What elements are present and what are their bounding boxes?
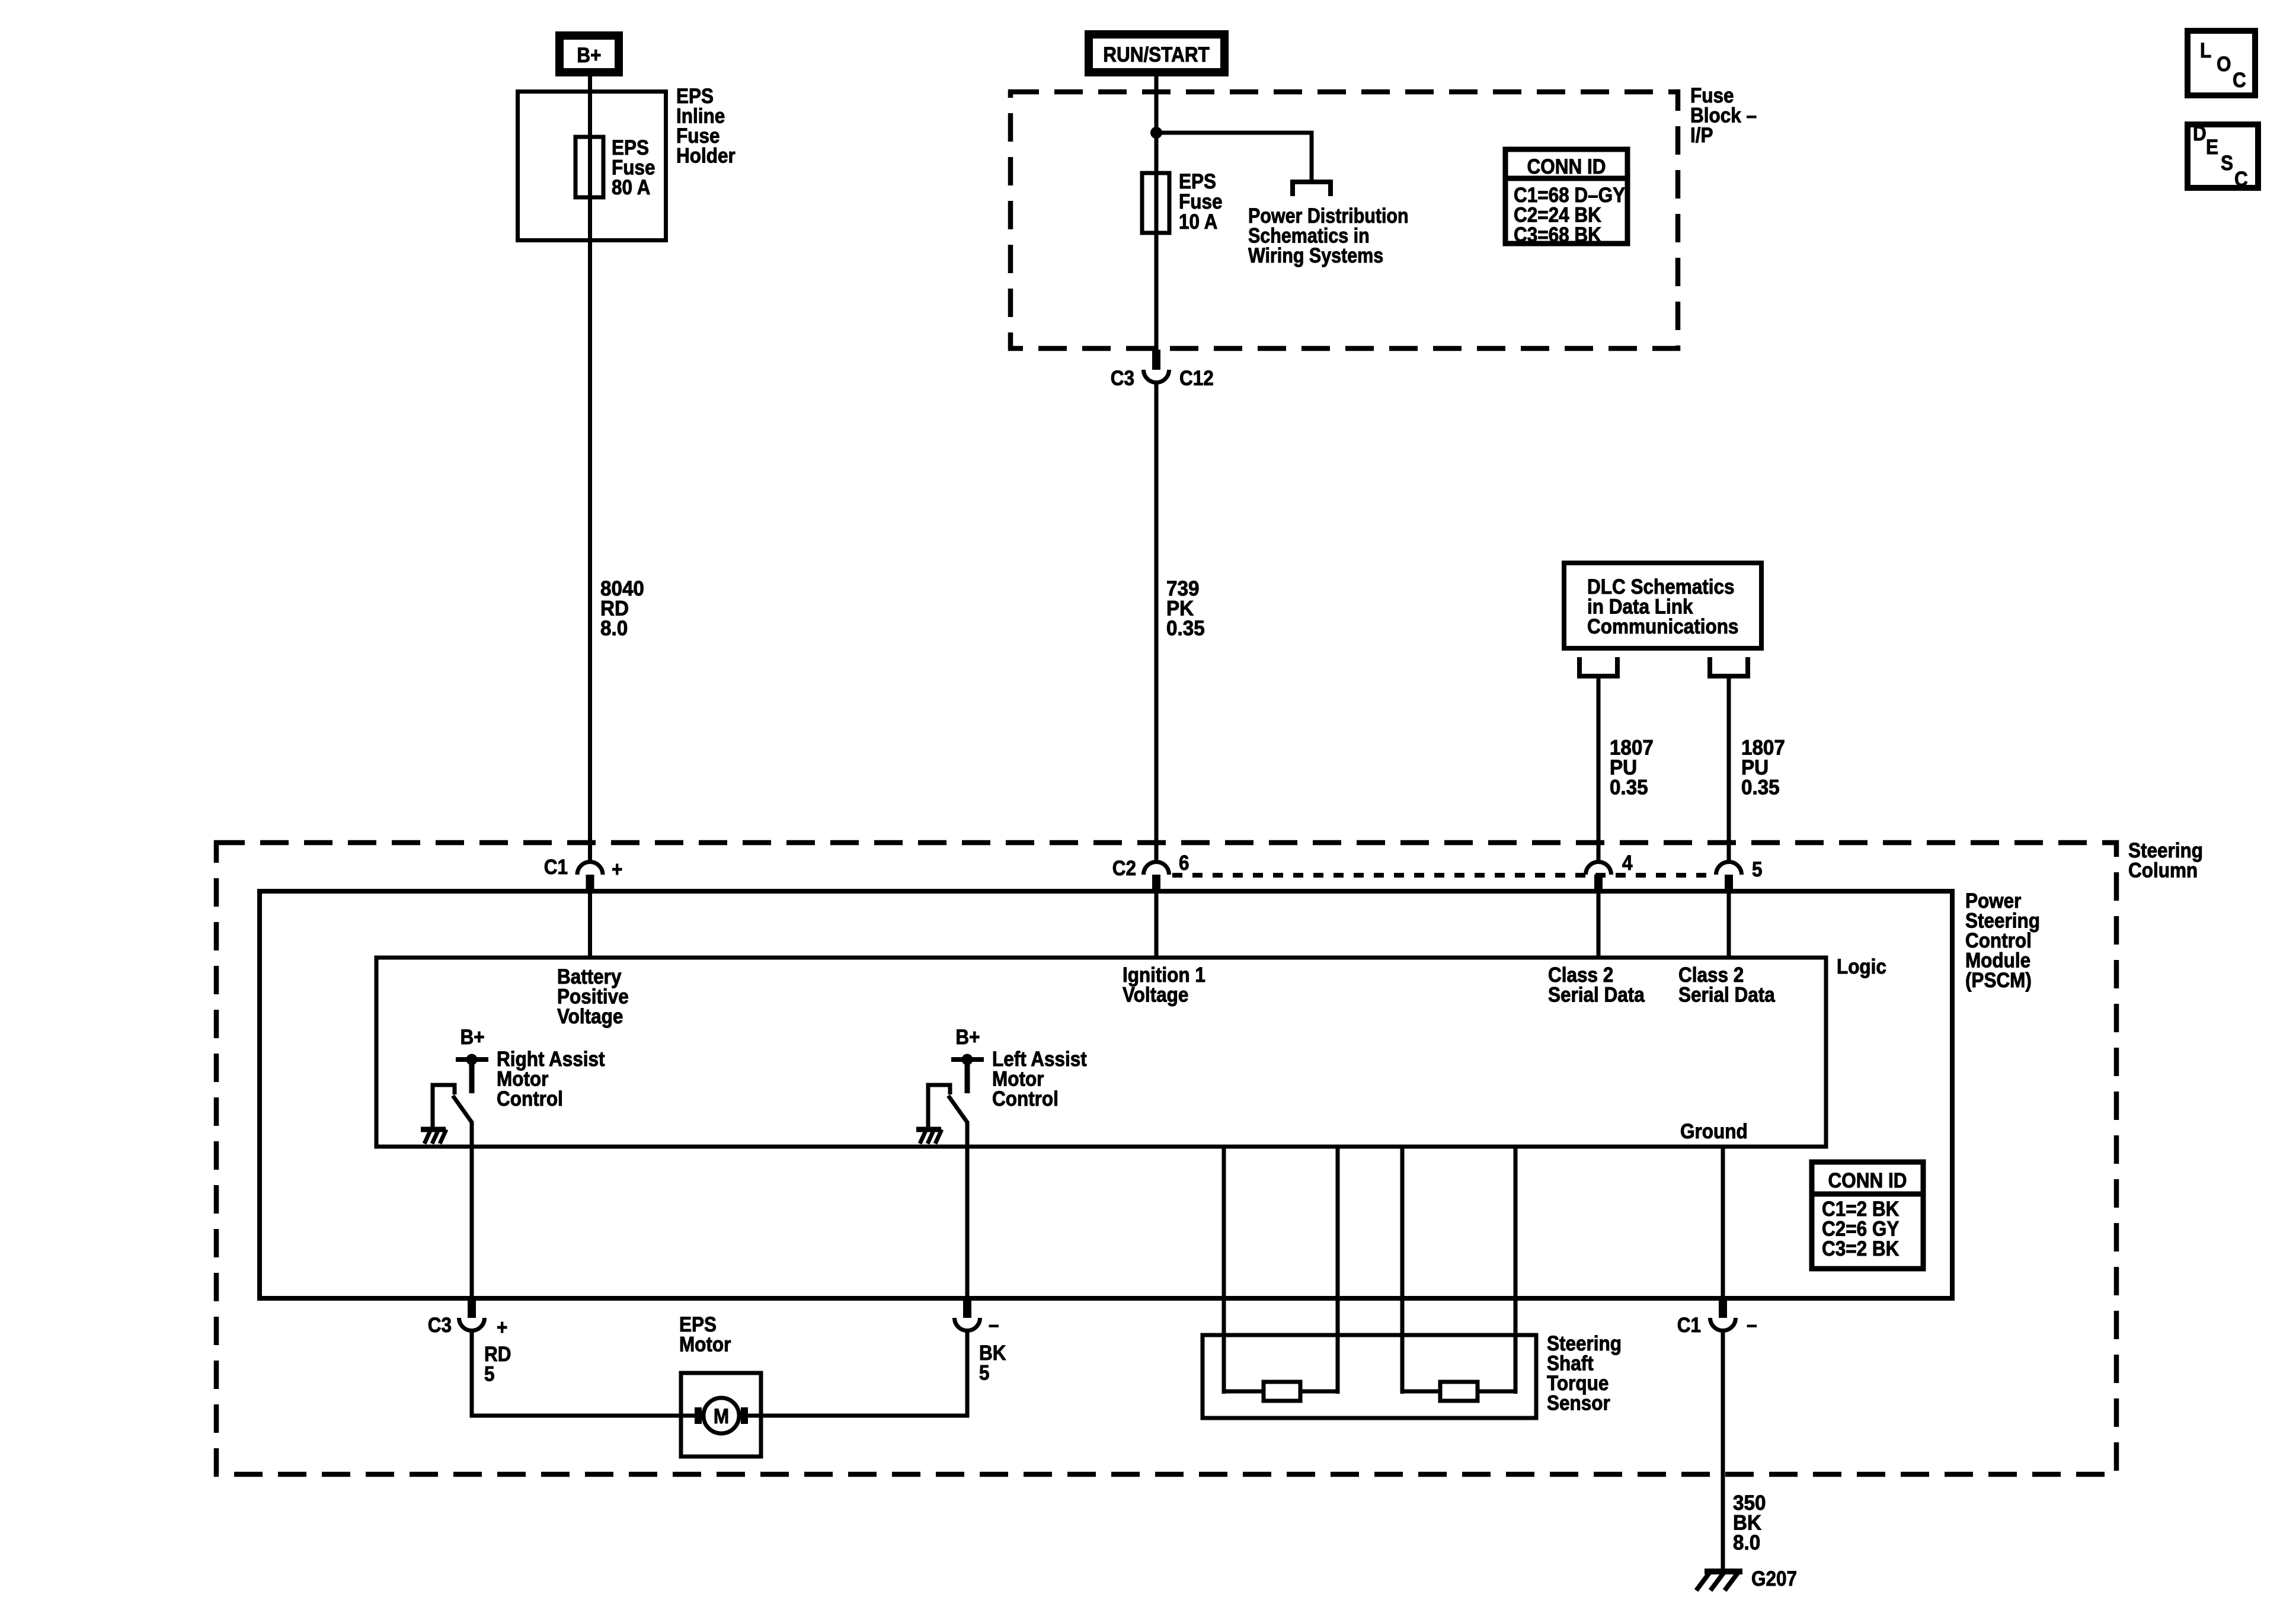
svg-text:C2: C2 (1112, 857, 1136, 881)
connector pin 5 stub (1725, 875, 1733, 892)
svg-text:Communications: Communications (1587, 616, 1738, 639)
connector C1 cup (577, 862, 603, 875)
svg-text:Ground: Ground (1680, 1121, 1748, 1144)
dotted serial data line (1172, 873, 1716, 878)
svg-text:Serial Data: Serial Data (1548, 984, 1645, 1007)
svg-text:Logic: Logic (1837, 956, 1886, 979)
svg-text:B+: B+ (577, 44, 601, 68)
motor brush left (695, 1407, 702, 1424)
svg-text:Column: Column (2128, 859, 2198, 882)
svg-text:+: + (497, 1317, 507, 1340)
svg-text:80 A: 80 A (612, 177, 650, 200)
svg-text:C3=2 BK: C3=2 BK (1822, 1238, 1899, 1261)
DLC Schematics box (1564, 563, 1761, 648)
motor brush right (741, 1407, 748, 1424)
svg-text:C12: C12 (1179, 367, 1214, 391)
svg-text:RUN/START: RUN/START (1103, 44, 1210, 67)
CONN ID table (PSCM) (1812, 1162, 1923, 1269)
connector pin 5 cup (1716, 862, 1742, 875)
svg-text:Control: Control (992, 1088, 1059, 1111)
svg-text:10 A: 10 A (1179, 211, 1217, 234)
Logic box (376, 958, 1826, 1147)
svg-text:C1: C1 (544, 856, 568, 879)
wire RUN/START to C3 connector (739 PK) (1155, 76, 1159, 351)
Fuse Block - I/P dashed box (1011, 92, 1678, 348)
connector pin 4 cup (1586, 862, 1611, 875)
svg-text:6: 6 (1179, 852, 1189, 875)
svg-text:Motor: Motor (679, 1333, 731, 1356)
svg-text:Wiring Systems: Wiring Systems (1248, 244, 1383, 267)
fuse EPS Fuse 10 A (1142, 173, 1169, 233)
chassis ground (left assist driver) (916, 1127, 941, 1132)
switch right assist motor control (433, 1085, 455, 1127)
wire C1 to G207 (350 BK) (1721, 1332, 1725, 1574)
DESC legend box (2188, 123, 2258, 191)
B+ stub (left assist driver) (965, 1060, 970, 1093)
Steering Shaft Torque Sensor box (1203, 1335, 1536, 1418)
svg-text:C1: C1 (1677, 1314, 1701, 1337)
svg-text:CONN ID: CONN ID (1828, 1170, 1907, 1193)
off-page connector to Power Distribution (1293, 182, 1331, 196)
svg-text:C3: C3 (428, 1314, 452, 1337)
connector C2 cup (1144, 862, 1169, 875)
connector motor minus cup (955, 1318, 980, 1331)
inline connector C3/C12 cup (1144, 370, 1169, 383)
svg-text:G207: G207 (1751, 1568, 1797, 1591)
connector C1 stub (586, 875, 594, 892)
svg-text:8.0: 8.0 (1733, 1531, 1760, 1554)
svg-text:E: E (2206, 136, 2218, 159)
fuse EPS Fuse 80 A (575, 137, 603, 197)
svg-text:–: – (989, 1314, 999, 1337)
power flag B+ (559, 36, 619, 72)
svg-text:C3: C3 (1111, 367, 1134, 391)
wire C3 to motor (472, 1332, 699, 1416)
svg-text:Sensor: Sensor (1547, 1392, 1610, 1415)
svg-text:L: L (2200, 40, 2211, 63)
svg-text:5: 5 (484, 1363, 495, 1386)
svg-text:4: 4 (1622, 852, 1633, 875)
power flag RUN/START (1089, 34, 1224, 72)
svg-text:D: D (2193, 123, 2207, 146)
svg-text:5: 5 (979, 1362, 990, 1385)
sensor element wire (right) (1402, 1390, 1515, 1394)
svg-text:Holder: Holder (676, 145, 736, 168)
LOC legend box (2188, 31, 2255, 95)
wire logic ground to C1 (1721, 1147, 1725, 1298)
B+ stub (right assist driver) (469, 1060, 475, 1093)
wire DLC to pin 4 (1807 PU) (1597, 676, 1601, 862)
svg-text:8.0: 8.0 (600, 617, 628, 640)
wire left assist output (965, 1121, 970, 1298)
svg-text:+: + (612, 859, 622, 882)
wire B+ to PSCM C1 (8040 RD) (588, 76, 592, 862)
svg-text:Voltage: Voltage (1123, 984, 1188, 1007)
connector pin 4 stub (1594, 875, 1603, 892)
wire DLC to pin 5 (1807 PU) (1727, 676, 1731, 862)
Steering Column dashed box (216, 843, 2116, 1474)
wire motor to minus connector (743, 1332, 967, 1416)
connector C3 stub (468, 1298, 476, 1318)
svg-text:B+: B+ (460, 1026, 484, 1049)
svg-text:C3=68 BK: C3=68 BK (1514, 224, 1601, 247)
chassis ground (right assist driver) (421, 1127, 446, 1132)
EPS Inline Fuse Holder box (518, 92, 666, 241)
svg-text:0.35: 0.35 (1610, 776, 1648, 799)
wire logic to sensor 2 (1336, 1147, 1340, 1394)
svg-text:Control: Control (497, 1088, 563, 1111)
svg-text:(PSCM): (PSCM) (1965, 969, 2032, 993)
svg-text:C: C (2234, 168, 2248, 191)
wire branch to Power Distribution (1156, 133, 1312, 180)
wire C12 to PSCM C2 (1155, 382, 1159, 862)
sensor resistor (left) (1264, 1382, 1300, 1401)
wire logic to sensor 4 (1514, 1147, 1518, 1394)
junction dot (1150, 127, 1162, 139)
motor M circle (703, 1398, 739, 1433)
svg-text:0.35: 0.35 (1741, 776, 1780, 799)
svg-text:Voltage: Voltage (557, 1006, 623, 1029)
wire logic to sensor 1 (1222, 1147, 1226, 1394)
connector C2 stub (1152, 875, 1160, 892)
svg-text:S: S (2221, 152, 2233, 175)
svg-text:0.35: 0.35 (1166, 617, 1205, 640)
EPS Motor box (681, 1373, 761, 1457)
svg-text:CONN ID: CONN ID (1527, 156, 1606, 179)
off-page connector from DLC (left) (1579, 657, 1617, 676)
svg-text:O: O (2217, 53, 2231, 76)
wire logic to sensor 3 (1400, 1147, 1405, 1394)
wire right assist output (470, 1121, 474, 1298)
svg-text:–: – (1747, 1314, 1757, 1337)
switch left assist motor control (928, 1085, 950, 1127)
svg-text:C: C (2233, 69, 2246, 92)
sensor resistor (right) (1440, 1382, 1478, 1401)
ground G207 (1696, 1571, 1742, 1590)
CONN ID table (Fuse Block) (1505, 149, 1627, 247)
wire pin4 to logic (Class 2) (1597, 892, 1601, 958)
off-page connector from DLC (right) (1710, 657, 1748, 676)
wire C2 to logic (Ignition 1 Voltage) (1155, 892, 1159, 958)
connector motor minus stub (963, 1298, 971, 1318)
sensor element wire (left) (1224, 1390, 1338, 1394)
connector C1 bottom stub (1719, 1298, 1727, 1318)
svg-text:Serial Data: Serial Data (1678, 984, 1775, 1007)
svg-text:5: 5 (1752, 859, 1763, 882)
wire C1 to logic (Battery Positive Voltage) (588, 892, 592, 958)
wire pin5 to logic (Class 2) (1727, 892, 1731, 958)
svg-text:I/P: I/P (1690, 124, 1713, 148)
Power Steering Control Module box (260, 891, 1952, 1298)
svg-text:M: M (714, 1406, 729, 1429)
connector C3 cup (459, 1318, 485, 1331)
svg-text:B+: B+ (955, 1026, 980, 1049)
inline connector C3/C12 stub (1152, 350, 1160, 370)
connector C1 bottom cup (1710, 1318, 1736, 1331)
